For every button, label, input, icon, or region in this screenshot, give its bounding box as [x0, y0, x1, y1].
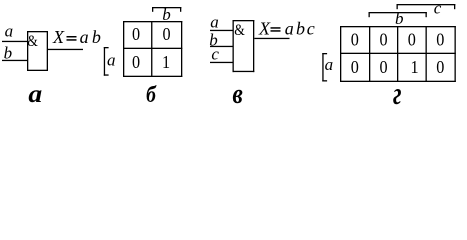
svg-text:a: a [5, 22, 14, 41]
svg-text:0: 0 [379, 57, 387, 77]
svg-text:c: c [307, 19, 315, 39]
wire input b [2, 60, 28, 61]
svg-text:c: c [434, 0, 442, 18]
wire input a [210, 30, 233, 31]
left bracket for row a [322, 53, 327, 82]
output formula X = a b [52, 27, 101, 47]
svg-text:&: & [234, 22, 245, 39]
svg-text:b: b [395, 9, 404, 28]
wire input a [2, 41, 28, 42]
svg-text:0: 0 [132, 24, 140, 44]
svg-text:a: a [210, 13, 219, 32]
svg-text:c: c [211, 45, 219, 64]
svg-text:б: б [146, 82, 157, 108]
svg-text:0: 0 [408, 30, 416, 50]
svg-text:1: 1 [162, 52, 170, 72]
output formula X = a bc [258, 19, 315, 39]
AND gate U2 body [233, 20, 255, 72]
AND gate U1 body [27, 31, 48, 71]
svg-text:0: 0 [351, 30, 359, 50]
svg-text:0: 0 [379, 30, 387, 50]
wire output [48, 49, 83, 50]
svg-text:0: 0 [162, 24, 170, 44]
map grid 2x2 [123, 21, 182, 77]
svg-text:b: b [4, 43, 13, 62]
wire output [254, 38, 289, 39]
svg-text:X: X [52, 27, 65, 47]
svg-text:в: в [233, 77, 244, 109]
svg-text:a: a [107, 51, 116, 70]
svg-text:X: X [258, 19, 271, 39]
svg-text:0: 0 [436, 30, 444, 50]
top bracket for c [397, 4, 456, 9]
svg-text:a: a [285, 19, 294, 39]
map grid 2x4 [340, 26, 456, 82]
svg-text:0: 0 [132, 52, 140, 72]
wire input b [210, 46, 233, 47]
svg-text:1: 1 [410, 57, 418, 77]
svg-text:0: 0 [436, 57, 444, 77]
svg-text:a: a [80, 27, 89, 47]
svg-text:0: 0 [351, 57, 359, 77]
svg-text:г: г [393, 77, 401, 110]
svg-text:&: & [27, 33, 38, 50]
wire input c [210, 62, 233, 63]
top bracket for b [369, 12, 427, 17]
left bracket for row a [104, 47, 109, 76]
svg-text:а: а [28, 79, 42, 108]
svg-text:b: b [92, 27, 101, 47]
svg-text:a: a [325, 55, 334, 74]
top bracket for b [152, 7, 181, 12]
svg-text:b: b [296, 19, 305, 39]
